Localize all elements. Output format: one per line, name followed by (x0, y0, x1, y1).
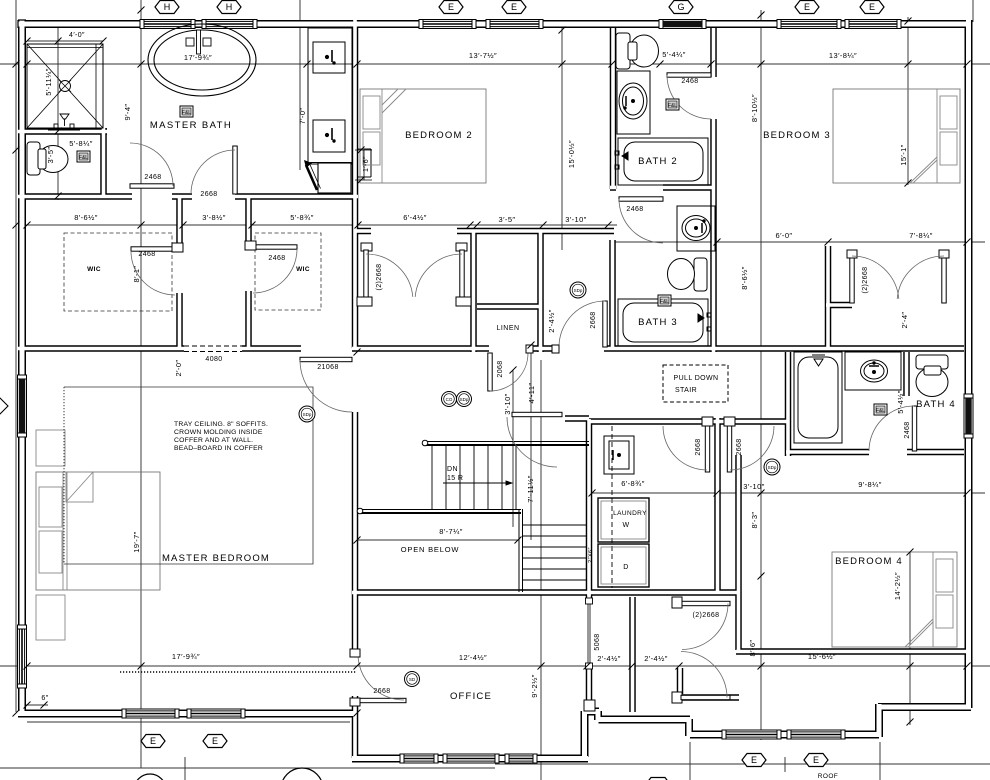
nightstand 2 (36, 595, 65, 640)
bedroom4 bed (832, 552, 957, 647)
svg-text:WIC: WIC (87, 266, 101, 273)
svg-text:F&L: F&L (660, 299, 669, 305)
svg-text:OFFICE: OFFICE (450, 691, 492, 702)
niche wall caps (584, 700, 595, 711)
washer (598, 498, 649, 542)
svg-text:9′-8¼″: 9′-8¼″ (858, 480, 882, 489)
door: master bath toilet room 2468 (130, 184, 174, 188)
svg-text:3′-10″: 3′-10″ (565, 215, 586, 224)
dryer (598, 544, 649, 587)
svg-text:2068: 2068 (497, 360, 504, 377)
svg-text:5′-11¼″: 5′-11¼″ (44, 68, 53, 96)
svg-text:LAUNDRY: LAUNDRY (613, 510, 647, 517)
svg-text:5′-4½″: 5′-4½″ (896, 390, 905, 414)
svg-text:DN: DN (447, 466, 458, 473)
double door bedroom3 (2)2668 (847, 250, 857, 258)
door: bath2 2468 (667, 73, 711, 77)
window office W13 (443, 754, 499, 763)
svg-text:MASTER BATH: MASTER BATH (150, 120, 232, 131)
svg-text:6′-8¾″: 6′-8¾″ (621, 479, 645, 488)
svg-text:E: E (150, 736, 156, 746)
svg-text:CROWN MOLDING INSIDE: CROWN MOLDING INSIDE (174, 429, 263, 436)
window top W5 dark (659, 20, 706, 29)
door: office 2668 (358, 698, 406, 702)
window top W6 (777, 20, 841, 29)
svg-text:OPEN BELOW: OPEN BELOW (401, 545, 460, 554)
door: WIC left 2468 (131, 247, 175, 251)
corner patch top-left (18, 20, 26, 28)
svg-text:2668: 2668 (695, 438, 702, 455)
svg-text:TRAY CEILING. 8" SOFFITS.: TRAY CEILING. 8" SOFFITS. (174, 421, 268, 428)
sheet marker circles bottom (281, 768, 323, 780)
svg-text:BEDROOM 2: BEDROOM 2 (405, 130, 473, 141)
F&L markers (180, 106, 193, 117)
window top W1 (140, 20, 195, 29)
office east window 5068 (586, 598, 593, 669)
svg-text:4′-11″: 4′-11″ (527, 383, 536, 404)
master bedroom dotted tray line (120, 671, 356, 673)
master bedroom tray ceiling (64, 387, 313, 564)
svg-text:8′-3″: 8′-3″ (750, 512, 759, 529)
svg-text:15′-0½″: 15′-0½″ (567, 140, 576, 168)
svg-text:H: H (226, 2, 233, 12)
svg-text:12′-4½″: 12′-4½″ (459, 653, 487, 662)
svg-text:2468: 2468 (904, 421, 911, 438)
tray ceiling note (174, 421, 268, 452)
stair rail lower / open below edge (357, 508, 522, 592)
svg-text:(2)2668: (2)2668 (862, 267, 869, 294)
bedroom3 bed (833, 89, 960, 183)
svg-text:G: G (677, 2, 684, 12)
door: stair hall 2668 (512, 412, 562, 416)
svg-text:STAIR: STAIR (675, 387, 697, 394)
svg-text:D: D (623, 564, 628, 571)
svg-text:W: W (622, 522, 629, 529)
svg-text:2468: 2468 (681, 78, 698, 85)
svg-text:CO: CO (446, 397, 453, 402)
svg-text:MASTER BEDROOM: MASTER BEDROOM (162, 553, 270, 564)
svg-text:SDp: SDp (574, 288, 583, 293)
shower valve symbol (48, 114, 80, 130)
svg-text:E: E (212, 736, 218, 746)
svg-text:19′-7″: 19′-7″ (132, 531, 141, 552)
window bath4 dark W17 (964, 394, 973, 438)
svg-text:H: H (164, 2, 171, 12)
svg-text:E: E (448, 2, 454, 12)
svg-text:WIC: WIC (296, 266, 310, 273)
svg-text:2668: 2668 (373, 688, 390, 695)
svg-text:5′-4¼″: 5′-4¼″ (662, 50, 686, 59)
svg-text:15′-1″: 15′-1″ (899, 144, 908, 165)
svg-text:8′-6½″: 8′-6½″ (740, 266, 749, 290)
svg-text:2668: 2668 (200, 191, 217, 198)
svg-text:2′-0″: 2′-0″ (174, 360, 183, 377)
svg-text:BEDROOM 3: BEDROOM 3 (763, 130, 831, 141)
window bottom-right W16 (787, 730, 845, 739)
svg-text:2468: 2468 (144, 174, 161, 181)
bath3 vanity (677, 206, 715, 251)
svg-text:2′-4½″: 2′-4½″ (547, 309, 556, 333)
svg-text:3′-5″: 3′-5″ (46, 147, 55, 164)
svg-text:F&L: F&L (79, 155, 88, 161)
svg-text:5′-8¾″: 5′-8¾″ (290, 213, 314, 222)
svg-text:SDp: SDp (768, 465, 777, 470)
window bottom W10 (122, 709, 179, 718)
door: bath3 hall 2668 (603, 301, 607, 347)
door: linen 2068 (488, 353, 492, 391)
master bed (36, 472, 160, 590)
window left W8 dark (18, 375, 27, 437)
svg-text:8′-1″: 8′-1″ (132, 266, 141, 283)
double door bedroom2 hall (2)2668 (361, 243, 372, 251)
bath3 toilet (668, 258, 708, 291)
svg-text:8′-10½″: 8′-10½″ (750, 94, 759, 122)
WIC right dashed ceiling (255, 233, 321, 310)
window bottom-right W15 (722, 730, 781, 739)
window top W2 (202, 20, 257, 29)
door: master bedroom 21068 (300, 357, 352, 361)
hexagon markers (155, 1, 179, 14)
master bath tub (148, 24, 256, 96)
door: hall/bath4 2668 (724, 417, 735, 426)
svg-text:2′-4″: 2′-4″ (900, 312, 909, 329)
svg-text:2668: 2668 (736, 438, 743, 455)
svg-text:2′-4½″: 2′-4½″ (597, 654, 621, 663)
svg-text:2468: 2468 (268, 255, 285, 262)
svg-text:14′-2½″: 14′-2½″ (893, 572, 902, 600)
laundry sink (604, 436, 634, 474)
door: master bath entry 2668 (233, 146, 237, 194)
svg-text:SDp: SDp (303, 412, 312, 417)
double door bedroom4 closet (2)2668 (672, 597, 682, 608)
svg-text:7′-0″: 7′-0″ (298, 108, 307, 125)
bath4 toilet (916, 355, 948, 397)
window top W7 (845, 20, 901, 29)
svg-text:21068: 21068 (317, 364, 338, 371)
svg-text:5′-8¼″: 5′-8¼″ (69, 139, 93, 148)
bath2 tub (615, 138, 708, 185)
svg-text:BEDROOM 4: BEDROOM 4 (835, 556, 903, 567)
svg-text:6″: 6″ (41, 695, 48, 702)
window bottom W11 (187, 709, 245, 718)
svg-text:8′-7¼″: 8′-7¼″ (439, 527, 463, 536)
master bath shower (27, 44, 103, 128)
svg-text:PULL DOWN: PULL DOWN (674, 375, 719, 382)
svg-text:15′-6½″: 15′-6½″ (808, 652, 836, 661)
bath4 tub (794, 352, 842, 443)
bath2 toilet (616, 33, 659, 69)
svg-text:6′-0″: 6′-0″ (776, 231, 793, 240)
door: bath4 2468 (912, 406, 916, 451)
bedroom2 bed (360, 89, 486, 183)
svg-text:E: E (751, 755, 757, 765)
window left W9 (18, 625, 27, 688)
bath3 tub (618, 299, 711, 346)
stair DN arrow (443, 481, 512, 485)
svg-text:13′-8¼″: 13′-8¼″ (829, 51, 857, 60)
door: laundry 2668 (702, 417, 713, 426)
svg-text:F&L: F&L (182, 110, 191, 116)
svg-text:9′-4″: 9′-4″ (123, 104, 132, 121)
svg-text:5068: 5068 (594, 633, 601, 650)
svg-text:17′-9¾″: 17′-9¾″ (172, 652, 200, 661)
svg-text:SDp: SDp (460, 397, 469, 402)
svg-text:2668: 2668 (590, 311, 597, 328)
svg-text:3′-10″: 3′-10″ (503, 393, 512, 414)
svg-text:2468: 2468 (138, 251, 155, 258)
door: bath3 inner 2468 (619, 197, 663, 201)
WIC left dashed ceiling (64, 233, 172, 311)
window office W12 (400, 754, 438, 763)
window top W3 (419, 20, 476, 29)
svg-text:3′-10″: 3′-10″ (743, 482, 764, 491)
stair treads lower flight (523, 525, 586, 580)
window office W14 (505, 754, 537, 763)
svg-text:E: E (511, 2, 517, 12)
window top W4 (486, 20, 543, 29)
svg-text:BATH 3: BATH 3 (638, 317, 678, 328)
svg-text:7′-8¼″: 7′-8¼″ (909, 231, 933, 240)
svg-text:COFFER AND AT WALL.: COFFER AND AT WALL. (174, 437, 253, 444)
svg-text:3′-8½″: 3′-8½″ (202, 213, 226, 222)
svg-text:BATH 2: BATH 2 (638, 156, 678, 167)
stair rail upper (422, 440, 589, 446)
laundry dashed line (611, 426, 613, 588)
svg-text:4′-0″: 4′-0″ (69, 32, 85, 39)
pull down stair dashed box (663, 365, 728, 402)
door: WIC right 2468 (253, 245, 297, 249)
master bath vanity (304, 28, 352, 193)
nightstand 1 (36, 430, 65, 466)
svg-text:17′-9¾″: 17′-9¾″ (184, 53, 212, 62)
opening 4080 dashed (184, 345, 242, 347)
svg-text:BEAD–BOARD IN COFFER: BEAD–BOARD IN COFFER (174, 445, 263, 452)
svg-text:SD: SD (409, 677, 416, 682)
svg-text:6′-4½″: 6′-4½″ (403, 213, 427, 222)
bath2 vanity (617, 71, 650, 134)
svg-text:3′-5″: 3′-5″ (499, 215, 516, 224)
svg-text:ROOF: ROOF (818, 773, 838, 780)
svg-text:2′-4½″: 2′-4½″ (644, 654, 668, 663)
bedroom2 niche (358, 149, 371, 177)
svg-text:(2)2668: (2)2668 (376, 264, 383, 291)
bath4 vanity (845, 352, 901, 390)
smoke detectors / CO markers (570, 282, 586, 298)
svg-text:E: E (869, 2, 875, 12)
svg-text:9′-2½″: 9′-2½″ (530, 674, 539, 698)
svg-text:8′-6½″: 8′-6½″ (74, 213, 98, 222)
svg-text:F&L: F&L (876, 408, 885, 414)
svg-text:BATH 4: BATH 4 (916, 399, 956, 410)
svg-text:7′-11½″: 7′-11½″ (526, 475, 535, 503)
svg-text:LINEN: LINEN (496, 325, 519, 332)
master bath toilet (27, 142, 68, 175)
svg-text:2″X6″: 2″X6″ (588, 547, 594, 563)
svg-text:4080: 4080 (205, 356, 222, 363)
bedroom2 niche dim lines (355, 150, 372, 180)
svg-text:2468: 2468 (626, 206, 643, 213)
svg-text:F&L: F&L (668, 103, 677, 109)
svg-text:(2)2668: (2)2668 (693, 612, 720, 619)
svg-text:E: E (804, 2, 810, 12)
svg-text:15 R: 15 R (447, 475, 463, 482)
svg-text:13′-7½″: 13′-7½″ (469, 51, 497, 60)
stair treads upper flight (432, 446, 516, 509)
left edge diamond marker (0, 398, 8, 414)
svg-text:E: E (813, 755, 819, 765)
svg-text:8′-6″: 8′-6″ (748, 640, 757, 657)
